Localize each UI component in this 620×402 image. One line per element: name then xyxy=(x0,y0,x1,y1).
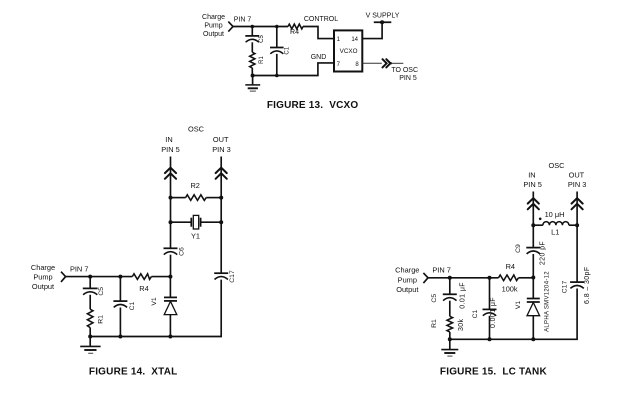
svg-text:R1: R1 xyxy=(97,315,104,324)
svg-text:FIGURE 15. LC TANK: FIGURE 15. LC TANK xyxy=(440,366,548,377)
svg-text:C6: C6 xyxy=(179,247,186,256)
capacitor C9 (fig15) xyxy=(526,248,540,254)
svg-text:TO OSC: TO OSC xyxy=(391,67,418,74)
svg-text:GND: GND xyxy=(311,54,327,61)
wire IN vertical top (fig14) xyxy=(170,157,172,249)
svg-text:Pump: Pump xyxy=(33,273,52,282)
svg-text:10 μH: 10 μH xyxy=(545,210,565,219)
svg-text:R1: R1 xyxy=(259,56,265,64)
wire C17 to rail corner (fig15) xyxy=(533,289,577,340)
inductor L1 (fig15) xyxy=(543,222,569,226)
wire C6 to node (fig14) xyxy=(170,255,172,277)
junction node C5 top (fig15) xyxy=(448,276,452,280)
connector chevron IN (fig14) xyxy=(165,168,176,179)
resistor R2 (fig14) xyxy=(186,195,207,201)
wire ground rail to GND pin (fig13) xyxy=(253,63,334,76)
svg-text:C5: C5 xyxy=(98,287,105,296)
svg-text:Output: Output xyxy=(32,282,54,291)
svg-text:IN: IN xyxy=(165,135,172,144)
svg-text:OSC: OSC xyxy=(188,125,205,134)
resistor R4 (fig13) xyxy=(288,24,303,29)
FIG13 xyxy=(202,12,418,111)
wire bottom rail (fig15) xyxy=(450,338,534,340)
crystal Y1 (fig14) xyxy=(171,215,222,229)
node Charge Pump Output label (fig15) xyxy=(395,266,419,294)
capacitor C17 (fig14) xyxy=(214,273,228,279)
capacitor C1 (fig13) xyxy=(270,48,284,54)
svg-text:C1: C1 xyxy=(472,309,479,318)
FIG14 xyxy=(31,125,236,378)
wire C9 to node (fig15) xyxy=(532,254,534,278)
svg-text:Pump: Pump xyxy=(204,22,222,29)
junction node C1 bottom (fig14) xyxy=(118,335,122,339)
wire R1 to ground rail (fig13) xyxy=(251,68,253,76)
svg-text:Output: Output xyxy=(203,31,224,38)
connector chevron input (fig14) xyxy=(61,272,66,282)
svg-text:PIN 7: PIN 7 xyxy=(234,17,252,24)
svg-text:Charge: Charge xyxy=(202,14,225,21)
junction node R2 right (fig14) xyxy=(219,196,223,200)
svg-text:0.01 μF: 0.01 μF xyxy=(459,282,466,309)
wire C5 to R1 (fig14) xyxy=(89,295,91,310)
op-amp U1 VCXO box (fig13) xyxy=(334,30,362,71)
wire node to V1 (fig14) xyxy=(169,277,171,297)
wire input to R4 (fig13) xyxy=(233,26,288,28)
junction node V1 bottom (fig15) xyxy=(531,337,535,341)
wire to C5 (fig13) xyxy=(251,27,253,36)
wire R2 left (fig14) xyxy=(171,197,186,199)
svg-text:Charge: Charge xyxy=(31,263,55,272)
svg-text:6.8 – 30pF: 6.8 – 30pF xyxy=(584,266,591,303)
svg-text:Y1: Y1 xyxy=(191,232,200,241)
svg-text:PIN 3: PIN 3 xyxy=(212,145,230,154)
svg-text:L1: L1 xyxy=(551,227,559,236)
svg-text:PIN 7: PIN 7 xyxy=(432,266,450,275)
power rail bar V SUPPLY (fig13) xyxy=(374,21,392,23)
diode V1 varactor (fig15) xyxy=(527,299,540,316)
wire to C1 (fig14) xyxy=(119,277,121,301)
svg-text:C9: C9 xyxy=(515,244,522,253)
junction node R4 right (fig15) xyxy=(531,276,535,280)
svg-text:PIN 5: PIN 5 xyxy=(523,180,541,189)
capacitor C5 (fig13) xyxy=(245,36,259,42)
svg-text:CONTROL: CONTROL xyxy=(304,16,338,23)
wire V SUPPLY to pin 14 (fig13) xyxy=(362,22,382,38)
wire to C5 (fig15) xyxy=(449,278,451,294)
svg-text:C17: C17 xyxy=(229,270,236,283)
wire V1 to rail (fig15) xyxy=(532,316,534,340)
wire bottom rail (fig14) xyxy=(90,336,170,338)
wire node to V1 (fig15) xyxy=(532,278,534,299)
svg-text:C5: C5 xyxy=(259,35,265,43)
capacitor C1 (fig15) xyxy=(483,309,497,315)
svg-text:OSC: OSC xyxy=(548,161,565,170)
connector chevron input (fig13) xyxy=(228,22,233,32)
junction node rail left (fig15) xyxy=(448,337,452,341)
wire C17 to rail corner (fig14) xyxy=(170,280,221,337)
capacitor C6 (fig14) xyxy=(164,248,178,254)
svg-text:V1: V1 xyxy=(151,297,158,306)
connector chevron output to OSC (fig13) xyxy=(383,59,393,67)
wire L1 left (fig15) xyxy=(533,224,543,226)
wire to C5 (fig14) xyxy=(89,277,91,288)
ground (fig15) xyxy=(441,339,458,356)
connector chevron OUT (fig14) xyxy=(216,168,227,179)
svg-text:Output: Output xyxy=(396,285,418,294)
ground (fig13) xyxy=(245,76,260,92)
connector chevron IN (fig15) xyxy=(528,198,539,209)
svg-text:R4: R4 xyxy=(506,262,515,271)
junction node C1 top (fig15) xyxy=(488,276,492,280)
capacitor C17 (fig15) xyxy=(570,282,584,288)
wire to C1 (fig13) xyxy=(276,27,278,48)
wire C1 to rail (fig14) xyxy=(119,308,121,337)
wire R4 to VCXO pin 1 (fig13) xyxy=(303,27,334,39)
junction node V SUPPLY (fig13) xyxy=(380,20,384,24)
wire R4 to node (fig14) xyxy=(151,276,170,278)
wire R1 to rail (fig14) xyxy=(89,328,91,337)
resistor R4 (fig15) xyxy=(499,275,519,281)
wire V1 to rail (fig14) xyxy=(169,315,171,337)
junction node L1 left (fig15) xyxy=(531,223,535,227)
svg-text:V1: V1 xyxy=(515,301,522,310)
wire R2 right (fig14) xyxy=(206,197,221,199)
junction node Y1 right (fig14) xyxy=(219,220,223,224)
svg-text:PIN 5: PIN 5 xyxy=(161,145,179,154)
junction node rail left (fig13) xyxy=(251,74,255,78)
wire C5 to R1 (fig13) xyxy=(251,42,253,52)
junction node C5 top (fig13) xyxy=(251,25,255,29)
svg-text:R4: R4 xyxy=(139,284,148,293)
wire C1 to rail (fig13) xyxy=(276,54,278,76)
svg-text:C1: C1 xyxy=(129,301,136,310)
svg-text:100k: 100k xyxy=(502,285,518,294)
wire R1 to rail (fig15) xyxy=(449,332,451,339)
wire L1 right (fig15) xyxy=(569,224,577,226)
wire R4 to node (fig15) xyxy=(519,277,534,279)
svg-text:VCXO: VCXO xyxy=(340,48,358,55)
junction node Y1 left (fig14) xyxy=(169,220,173,224)
capacitor C1 (fig14) xyxy=(113,301,127,307)
svg-text:FIGURE 13. VCXO: FIGURE 13. VCXO xyxy=(267,100,359,111)
svg-text:PIN 3: PIN 3 xyxy=(568,180,586,189)
svg-text:OUT: OUT xyxy=(569,171,585,180)
junction node C1 top (fig13) xyxy=(275,25,279,29)
svg-text:C17: C17 xyxy=(562,281,569,294)
svg-text:OUT: OUT xyxy=(213,135,229,144)
junction node C1 bottom (fig15) xyxy=(488,337,492,341)
svg-text:V SUPPLY: V SUPPLY xyxy=(366,12,400,19)
wire C1 to rail (fig15) xyxy=(489,316,491,340)
junction node C1 bottom (fig13) xyxy=(275,74,279,78)
FIG15 xyxy=(395,161,591,377)
junction node rail left (fig14) xyxy=(88,335,92,339)
svg-text:14: 14 xyxy=(351,37,358,43)
resistor R1 (fig14) xyxy=(87,309,93,327)
ground (fig14) xyxy=(80,337,100,354)
resistor R4 (fig14) xyxy=(132,274,151,280)
resistor R1 (fig15) xyxy=(447,316,453,332)
svg-text:PIN 5: PIN 5 xyxy=(399,75,417,82)
svg-text:C1: C1 xyxy=(285,46,291,54)
diode V1 varactor (fig14) xyxy=(164,297,177,314)
junction node L1 right (fig15) xyxy=(575,223,579,227)
wire to C1 (fig15) xyxy=(489,278,491,309)
wire pin 8 output (fig13) xyxy=(362,62,382,64)
svg-text:Charge: Charge xyxy=(395,266,419,275)
junction node C5 top (fig14) xyxy=(88,275,92,279)
svg-text:IN: IN xyxy=(528,171,535,180)
stray dot near L1 (fig15) xyxy=(539,218,542,221)
wire OUT vertical (fig15) xyxy=(576,192,578,282)
svg-text:ALPHA SMV1204-12: ALPHA SMV1204-12 xyxy=(545,271,551,332)
junction node R2 left (fig14) xyxy=(169,196,173,200)
capacitor C5 (fig15) xyxy=(443,294,457,300)
wire IN vertical (fig15) xyxy=(532,192,534,248)
node Charge Pump Output label (fig13) xyxy=(202,14,225,38)
svg-text:R1: R1 xyxy=(431,319,438,328)
node Charge Pump Output label (fig14) xyxy=(31,263,55,291)
connector chevron input (fig15) xyxy=(423,273,428,283)
svg-text:FIGURE 14. XTAL: FIGURE 14. XTAL xyxy=(89,366,178,377)
connector chevron OUT (fig15) xyxy=(572,198,583,209)
resistor R1 (fig13) xyxy=(250,52,255,68)
svg-text:Pump: Pump xyxy=(398,275,417,284)
junction node R4 C6 V1 (fig14) xyxy=(168,275,172,279)
junction node V1 bottom (fig14) xyxy=(168,335,172,339)
wire after chevron (fig13) xyxy=(391,62,403,64)
svg-text:C5: C5 xyxy=(431,294,438,303)
svg-text:0.001 μF: 0.001 μF xyxy=(490,297,497,328)
wire OUT vertical top (fig14) xyxy=(220,157,222,274)
svg-text:30k: 30k xyxy=(458,318,465,331)
svg-text:R2: R2 xyxy=(190,181,199,190)
svg-text:PIN 7: PIN 7 xyxy=(70,264,88,273)
svg-text:220 pF: 220 pF xyxy=(540,241,547,265)
svg-text:R4: R4 xyxy=(290,29,299,36)
wire input run (fig14) xyxy=(66,276,133,278)
junction node C1 top (fig14) xyxy=(118,275,122,279)
wire input run (fig15) xyxy=(428,277,499,279)
wire C5 to R1 (fig15) xyxy=(449,301,451,317)
capacitor C5 (fig14) xyxy=(83,288,98,294)
